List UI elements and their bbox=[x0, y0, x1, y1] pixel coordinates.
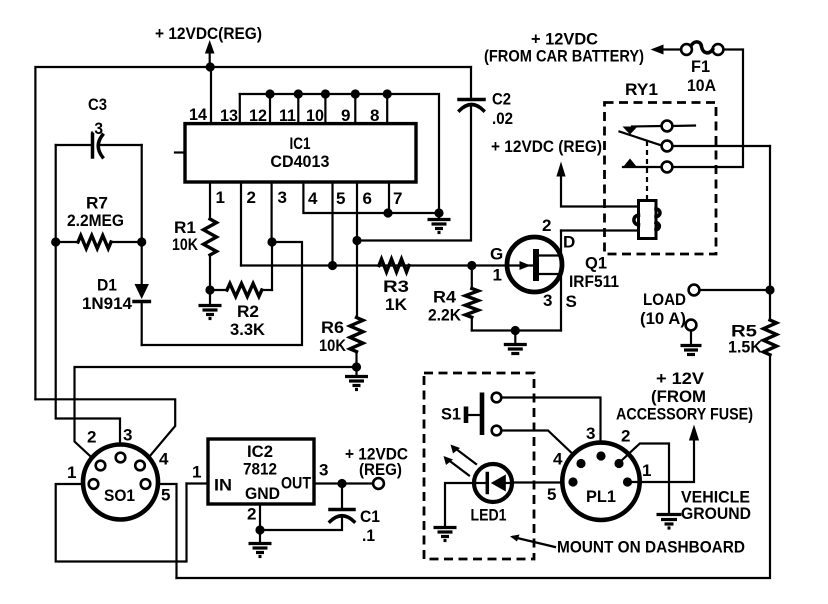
wire gate line pin2 to Q1 bbox=[241, 264, 518, 266]
wire Q1 drain to coil bbox=[561, 229, 639, 231]
ground LED1 bbox=[434, 528, 457, 541]
wire IC1 pin 5 bbox=[331, 182, 333, 266]
SO1 pin 1 bbox=[89, 479, 99, 489]
svg-text:3: 3 bbox=[319, 461, 328, 480]
svg-text:3: 3 bbox=[543, 291, 552, 310]
PL1 pin 2 bbox=[614, 459, 623, 468]
svg-text:3: 3 bbox=[586, 424, 595, 443]
PL1 pin 3 bbox=[596, 451, 605, 460]
fuse F1 bbox=[681, 42, 723, 55]
svg-text:RY1: RY1 bbox=[625, 80, 658, 99]
svg-text:CD4013: CD4013 bbox=[270, 152, 329, 171]
svg-text:.1: .1 bbox=[362, 526, 375, 545]
wire IC1 pin 1 bbox=[209, 182, 211, 219]
wire C3 loop left vertical bbox=[56, 145, 120, 452]
wire IC1 pin 6 bbox=[356, 182, 358, 318]
wire IC1 pin 13 to bus bbox=[239, 94, 241, 124]
wire IC1 pin 7 bbox=[389, 182, 439, 213]
relay common terminal bbox=[662, 141, 673, 152]
svg-text:+ 12V: + 12V bbox=[656, 369, 705, 388]
svg-text:10K: 10K bbox=[319, 336, 347, 355]
capacitor C1 bbox=[260, 484, 354, 531]
svg-text:5: 5 bbox=[547, 485, 556, 504]
svg-text:2.2K: 2.2K bbox=[428, 306, 462, 325]
relay armature diagonal bbox=[620, 132, 662, 146]
svg-text:4: 4 bbox=[308, 189, 318, 208]
svg-text:12: 12 bbox=[249, 106, 267, 125]
terminal +12VDC REG output bbox=[373, 478, 384, 489]
svg-text:10A: 10A bbox=[687, 76, 716, 95]
ground vehicle bbox=[657, 515, 682, 529]
svg-text:1K: 1K bbox=[385, 295, 408, 314]
svg-text:.3: .3 bbox=[90, 119, 103, 138]
svg-text:6: 6 bbox=[363, 189, 372, 208]
relay blade triangle bbox=[623, 127, 638, 135]
LED1 bbox=[474, 464, 512, 502]
resistor R5 bbox=[764, 320, 777, 355]
svg-text:SO1: SO1 bbox=[104, 486, 135, 505]
resistor R3 bbox=[379, 259, 409, 272]
wire pin3 loop to D1 bottom bbox=[142, 242, 302, 345]
relay linkage dashed bbox=[646, 141, 648, 200]
leader line mount on dashboard bbox=[513, 537, 555, 547]
wire LED1 to PL1 pin5 bbox=[512, 481, 563, 483]
ground LOAD bbox=[681, 331, 702, 355]
terminal LOAD bottom bbox=[686, 320, 697, 331]
svg-text:S: S bbox=[566, 292, 577, 311]
wire left border to SO1 pin4 bbox=[35, 399, 175, 456]
power accessory arrowhead bbox=[689, 425, 699, 441]
svg-text:7812: 7812 bbox=[243, 460, 277, 479]
relay bottom terminal bbox=[662, 162, 673, 173]
wire IC1 pin 12 bbox=[269, 94, 271, 124]
wire IC1 pin 2 bbox=[240, 182, 242, 266]
wire R1 to ground node bbox=[209, 255, 211, 305]
svg-text:1: 1 bbox=[493, 266, 502, 285]
svg-text:1N914: 1N914 bbox=[82, 294, 133, 313]
switch S1 bbox=[466, 393, 501, 436]
svg-text:G: G bbox=[490, 245, 503, 264]
ground R6 bbox=[345, 377, 368, 390]
node R4 top on gate line bbox=[467, 261, 476, 270]
wire IC1 pin 10 bbox=[324, 94, 326, 124]
wire fuse to relay NC contact bbox=[673, 50, 744, 168]
svg-text:.02: .02 bbox=[492, 109, 513, 128]
svg-text:(REG): (REG) bbox=[359, 460, 402, 479]
wire R5 to bottom rail bbox=[177, 355, 771, 578]
power battery arrowhead bbox=[651, 45, 664, 55]
wire R6 to ground node bbox=[355, 352, 357, 377]
power +12VDC REG arrow bbox=[556, 162, 638, 207]
svg-text:(FROM: (FROM bbox=[651, 387, 706, 406]
svg-text:9: 9 bbox=[341, 106, 350, 125]
svg-text:10: 10 bbox=[306, 106, 324, 125]
ground Q1 source bbox=[504, 331, 527, 354]
resistor R1 bbox=[204, 219, 217, 255]
svg-text:1: 1 bbox=[192, 463, 201, 482]
wire SO1 pin5 to bottom rail bbox=[158, 484, 177, 578]
node pin 6 / C2 wire bbox=[352, 236, 361, 245]
wire LED1 left to ground bbox=[445, 483, 475, 527]
svg-text:S1: S1 bbox=[441, 405, 461, 424]
wire top bus pins 13-8 bbox=[240, 94, 439, 213]
node R6 ground junction bbox=[352, 362, 361, 371]
svg-text:PL1: PL1 bbox=[586, 487, 616, 506]
svg-text:IC1: IC1 bbox=[290, 134, 311, 153]
svg-text:(10 A): (10 A) bbox=[640, 309, 686, 328]
svg-text:1.5K: 1.5K bbox=[728, 338, 763, 357]
svg-text:2: 2 bbox=[87, 428, 96, 447]
wire PL1 pin2 to vehicle ground bbox=[621, 444, 669, 515]
node pin 11 bus bbox=[294, 89, 303, 98]
wire IC1 pin 14 bbox=[210, 67, 212, 124]
wire pin6 to C2 branch bbox=[357, 105, 471, 241]
ground IC2 bbox=[249, 544, 272, 557]
node R7 right bbox=[137, 237, 146, 246]
node C1 junction bbox=[337, 479, 346, 488]
svg-text:8: 8 bbox=[370, 106, 379, 125]
svg-text:5: 5 bbox=[161, 486, 170, 505]
wire PL1 pin1 to accessory arrow bbox=[628, 439, 694, 482]
wire arrow stem +12VDC(REG) bbox=[209, 52, 211, 67]
wire IC2 pin1 IN bbox=[187, 482, 209, 484]
relay RY1 dashed box bbox=[605, 103, 717, 255]
node pin 9 bus bbox=[351, 89, 360, 98]
node pin 8 bus bbox=[383, 89, 392, 98]
LED1 emission arrows bbox=[444, 445, 477, 476]
svg-text:4: 4 bbox=[553, 450, 563, 469]
capacitor C3 bbox=[56, 135, 142, 158]
svg-text:Q1: Q1 bbox=[585, 254, 607, 273]
node pin 7 junction bbox=[383, 208, 392, 217]
node +12VDC junction bbox=[206, 62, 215, 71]
svg-text:D1: D1 bbox=[97, 276, 117, 295]
svg-text:MOUNT ON DASHBOARD: MOUNT ON DASHBOARD bbox=[557, 538, 745, 557]
wire IC1 pin 9 bbox=[354, 94, 356, 124]
node pin 3 junction bbox=[267, 237, 276, 246]
wire SO1 pin1 loop to IC2 IN bbox=[56, 484, 187, 562]
connector SO1 body bbox=[83, 445, 158, 520]
svg-text:GROUND: GROUND bbox=[681, 504, 751, 523]
wire LOAD stub bbox=[699, 289, 770, 291]
node pin4/pin7 ground wire at bus bbox=[434, 208, 443, 217]
svg-text:R7: R7 bbox=[86, 194, 108, 213]
SO1 pin 5 bbox=[141, 479, 151, 489]
SO1 pin 3 bbox=[116, 453, 126, 463]
svg-text:10K: 10K bbox=[172, 235, 199, 254]
PL1 pin 5 bbox=[568, 477, 577, 486]
wire S1 bottom to PL1 pin4 bbox=[501, 431, 577, 459]
svg-text:F1: F1 bbox=[691, 57, 710, 76]
svg-text:R3: R3 bbox=[383, 277, 409, 296]
wire relay rail to bottom bbox=[769, 146, 771, 320]
relay coil RY1 bbox=[634, 201, 660, 239]
wire IC2 pin3 OUT bbox=[314, 482, 373, 484]
wire IC1 pin 3 bbox=[271, 182, 273, 242]
IC U1 CD4013 body bbox=[185, 124, 416, 182]
svg-text:13: 13 bbox=[220, 106, 238, 125]
svg-text:LOAD: LOAD bbox=[643, 290, 686, 309]
svg-text:+ 12VDC (REG): + 12VDC (REG) bbox=[491, 137, 602, 156]
svg-text:IN: IN bbox=[214, 476, 232, 495]
svg-text:14: 14 bbox=[189, 105, 208, 124]
node LOAD junction bbox=[765, 285, 774, 294]
svg-text:4: 4 bbox=[159, 450, 169, 469]
wire C3 loop right vertical bbox=[141, 145, 143, 242]
wire top +12VDC rail bbox=[35, 67, 471, 399]
wire S1 top to PL1 pin3 bbox=[501, 398, 600, 452]
svg-text:5: 5 bbox=[336, 189, 345, 208]
node pin 5 on gate line bbox=[328, 261, 337, 270]
svg-text:D: D bbox=[563, 233, 575, 252]
svg-text:C3: C3 bbox=[88, 95, 107, 114]
svg-text:2: 2 bbox=[621, 427, 630, 446]
svg-text:R6: R6 bbox=[321, 318, 344, 337]
SO1 pin 4 bbox=[135, 461, 145, 471]
svg-text:IC2: IC2 bbox=[247, 442, 273, 461]
MOSFET Q1 IRF511 bbox=[507, 231, 562, 331]
PL1 pin 1 bbox=[623, 477, 632, 486]
PL1 pin 4 bbox=[576, 459, 585, 468]
svg-text:R2: R2 bbox=[237, 302, 259, 321]
node pin 12 bus bbox=[265, 89, 274, 98]
node IC2 gnd junction bbox=[255, 525, 264, 534]
svg-text:(FROM CAR BATTERY): (FROM CAR BATTERY) bbox=[484, 47, 644, 66]
IC U2 7812 body bbox=[208, 439, 314, 504]
svg-text:3: 3 bbox=[278, 188, 287, 207]
svg-text:2: 2 bbox=[247, 505, 256, 524]
svg-text:R4: R4 bbox=[433, 288, 457, 307]
relay lower triangle bbox=[624, 159, 637, 167]
ground R1 bbox=[199, 306, 222, 319]
relay bottom stub bbox=[623, 166, 662, 168]
svg-text:2: 2 bbox=[542, 216, 551, 235]
svg-text:7: 7 bbox=[393, 189, 402, 208]
svg-text:LED1: LED1 bbox=[471, 506, 507, 525]
IC1 left edge tick bbox=[175, 151, 184, 153]
svg-text:ACCESSORY FUSE): ACCESSORY FUSE) bbox=[616, 405, 753, 424]
wire IC1 pin 8 bbox=[386, 94, 388, 124]
capacitor C2 bbox=[459, 67, 484, 111]
node source/R4 ground bbox=[511, 326, 520, 335]
wire IC1 pin 11 bbox=[297, 94, 299, 124]
node R1/R2 junction bbox=[205, 285, 214, 294]
resistor R7 bbox=[56, 236, 142, 249]
resistor R4 bbox=[465, 266, 478, 331]
dashed box MOUNT ON DASHBOARD bbox=[424, 373, 534, 559]
wire arrow to fuse bbox=[663, 48, 681, 50]
wire IC1 pin 4 bbox=[303, 182, 388, 213]
resistor R6 bbox=[350, 318, 363, 352]
svg-text:+ 12VDC(REG): + 12VDC(REG) bbox=[155, 24, 262, 43]
wire R6 node to SO1 pin2 bbox=[75, 367, 357, 461]
svg-text:2.2MEG: 2.2MEG bbox=[67, 211, 124, 230]
svg-text:3.3K: 3.3K bbox=[230, 320, 266, 339]
svg-text:11: 11 bbox=[279, 106, 296, 125]
terminal LOAD top bbox=[689, 285, 700, 296]
svg-text:2: 2 bbox=[247, 188, 256, 207]
connector PL1 body bbox=[562, 443, 639, 520]
svg-text:IRF511: IRF511 bbox=[569, 272, 619, 291]
relay contact top terminal bbox=[662, 121, 673, 132]
svg-text:1: 1 bbox=[67, 463, 76, 482]
svg-text:3: 3 bbox=[123, 426, 132, 445]
svg-text:OUT: OUT bbox=[281, 474, 312, 493]
SO1 pin 2 bbox=[96, 461, 106, 471]
power +12VDC(REG) arrowhead bbox=[205, 40, 215, 54]
ground IC1 bus bbox=[428, 213, 451, 233]
diode D1 bbox=[134, 242, 149, 345]
node R7 left bbox=[51, 237, 60, 246]
wire IC2 pin2 GND bbox=[259, 504, 261, 543]
wire R4 bottom to source node bbox=[472, 329, 561, 331]
wire common contact to R5 rail bbox=[673, 145, 771, 147]
resistor R2 bbox=[210, 242, 272, 297]
relay contact top stub bbox=[632, 125, 662, 128]
svg-text:GND: GND bbox=[245, 484, 280, 503]
svg-text:1: 1 bbox=[216, 188, 225, 207]
node pin 10 bus bbox=[321, 89, 330, 98]
wire top contact right stub bbox=[673, 124, 696, 127]
svg-text:1: 1 bbox=[642, 461, 651, 480]
svg-text:C2: C2 bbox=[492, 90, 511, 109]
svg-text:C1: C1 bbox=[360, 507, 380, 526]
